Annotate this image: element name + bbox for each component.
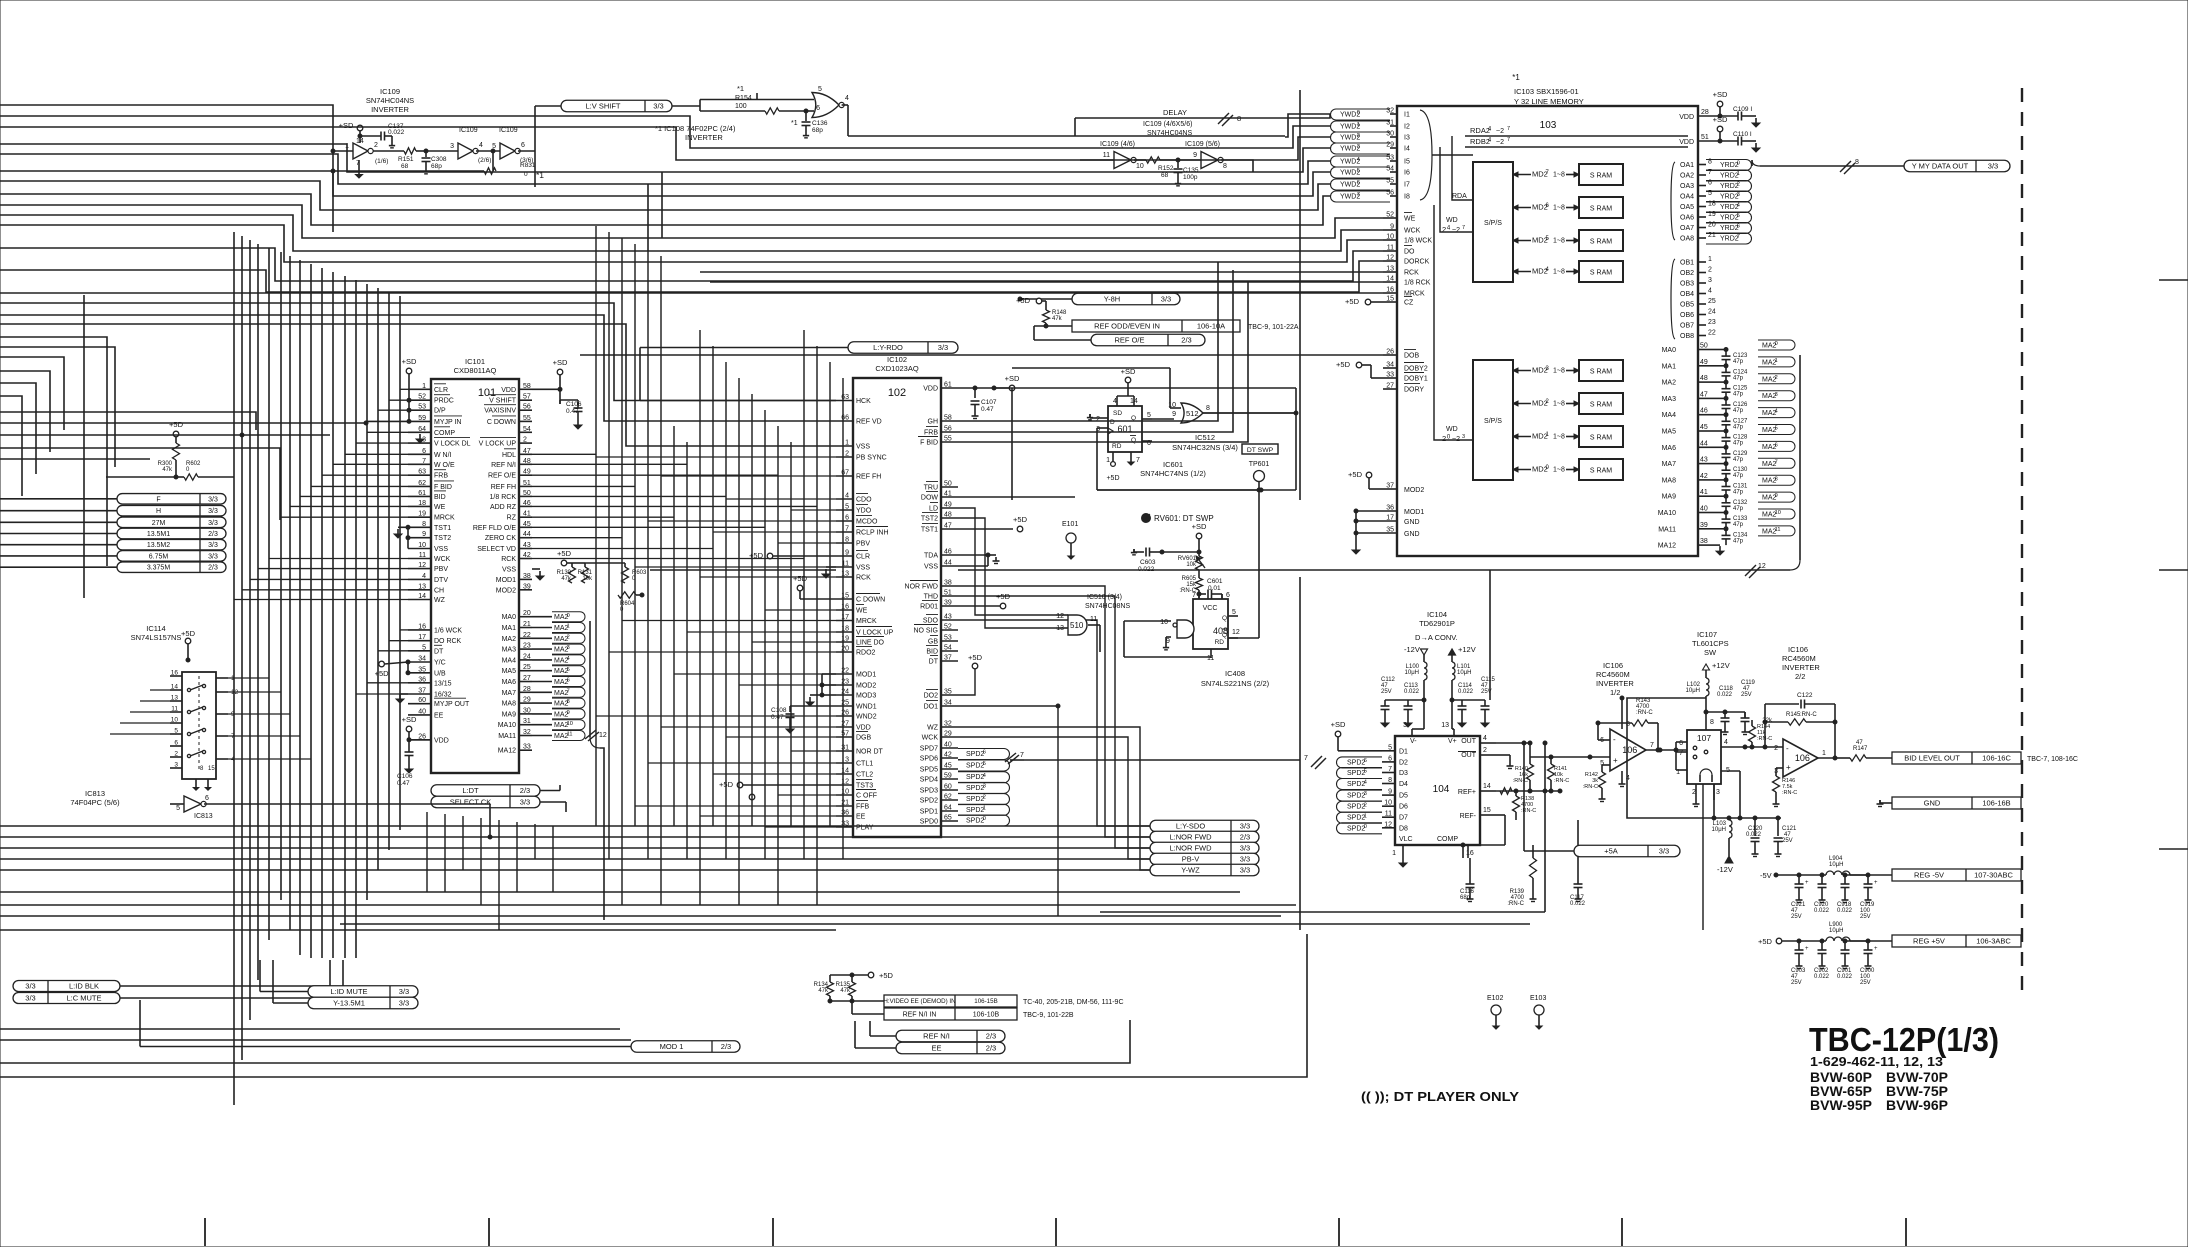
svg-text:I5: I5 (1404, 159, 1410, 166)
svg-text:IC101: IC101 (465, 357, 485, 366)
svg-text:F BID: F BID (920, 440, 938, 447)
flag L:V SHIFT 3/3 (561, 100, 672, 112)
svg-text:59: 59 (944, 773, 952, 780)
svg-text:VSS: VSS (434, 546, 448, 553)
svg-text:47p: 47p (1733, 538, 1744, 544)
svg-text:10: 10 (1160, 619, 1168, 626)
svg-text::RN-C: :RN-C (1507, 901, 1524, 907)
flag 6.75M 3/3 (117, 551, 226, 562)
svg-text:+SD: +SD (1713, 115, 1728, 124)
svg-text:IC104: IC104 (1427, 610, 1447, 619)
svg-text:10μH: 10μH (1829, 862, 1843, 868)
svg-text:0: 0 (1357, 110, 1360, 116)
svg-text:57: 57 (523, 394, 531, 401)
svg-text:3/3: 3/3 (1240, 822, 1250, 831)
svg-text:16: 16 (418, 623, 426, 630)
op-amp IC106 1/2 (1600, 696, 1654, 787)
svg-text:4: 4 (845, 95, 849, 102)
wire MOD 1 feed (140, 1000, 631, 1047)
svg-text:38: 38 (1700, 538, 1708, 545)
label WD bus lower (1442, 426, 1465, 443)
svg-text:47p: 47p (1733, 359, 1744, 365)
svg-text:PB SYNC: PB SYNC (856, 455, 887, 462)
svg-text:SPD2: SPD2 (920, 798, 938, 805)
svg-text:S RAM: S RAM (1590, 402, 1612, 409)
wire IC102 WZ line (958, 727, 1150, 870)
svg-text:22: 22 (523, 632, 531, 639)
svg-text:37: 37 (944, 655, 952, 662)
svg-text:54: 54 (523, 426, 531, 433)
svg-text:D/P: D/P (434, 408, 446, 415)
svg-text:IC601: IC601 (1163, 460, 1183, 469)
svg-text:7: 7 (1192, 592, 1196, 599)
svg-text:D4: D4 (1399, 781, 1408, 788)
svg-text:103: 103 (1540, 120, 1557, 131)
svg-text:MCDO: MCDO (856, 519, 878, 526)
svg-text:+5D: +5D (1336, 360, 1351, 369)
svg-text:12: 12 (418, 562, 426, 569)
svg-text:0.022: 0.022 (1404, 689, 1420, 695)
svg-text:V LOCK UP: V LOCK UP (479, 441, 517, 448)
svg-text:1~8: 1~8 (1553, 238, 1565, 245)
svg-text:10: 10 (418, 542, 426, 549)
svg-text:DORY: DORY (1404, 387, 1424, 394)
svg-text:3/3: 3/3 (1240, 855, 1250, 864)
label IC813 74F04PC (70, 789, 120, 807)
svg-text:10: 10 (1384, 800, 1392, 807)
wire into flag 13.5M1 (0, 533, 117, 535)
resistor R130 47k (557, 563, 576, 583)
svg-text:WND2: WND2 (856, 714, 877, 721)
ground IC101 pin 37 (396, 694, 408, 703)
svg-text:9: 9 (1390, 224, 1394, 231)
svg-text:+5D: +5D (1106, 475, 1119, 482)
svg-text:V-: V- (1410, 738, 1417, 745)
svg-text:+5D: +5D (1013, 515, 1028, 524)
wire left entry y448 (0, 448, 280, 520)
svg-text:0.022: 0.022 (1717, 692, 1733, 698)
power +SD IC102 pin15 (793, 574, 836, 599)
svg-text:15: 15 (1386, 296, 1394, 303)
svg-text:Y-8H: Y-8H (1104, 295, 1120, 304)
op IC103 MOD2 pin (1348, 470, 1424, 494)
svg-text:43: 43 (1700, 457, 1708, 464)
svg-text:GB: GB (928, 639, 938, 646)
svg-text:20: 20 (523, 610, 531, 617)
svg-text:47k: 47k (818, 988, 829, 994)
svg-text:ADD RZ: ADD RZ (490, 504, 517, 511)
title TBC-12P(1/3) (1809, 1021, 1999, 1058)
svg-text:5: 5 (845, 504, 849, 511)
svg-text:OB6: OB6 (1680, 312, 1694, 319)
inductor L103 body (1712, 816, 1733, 874)
svg-text:(2/6): (2/6) (478, 157, 491, 164)
svg-text:24: 24 (1708, 309, 1716, 316)
flag REF N/I IN 106-10B (884, 1008, 1074, 1020)
svg-text:SPD4: SPD4 (920, 777, 938, 784)
svg-text:53: 53 (944, 635, 952, 642)
svg-text:MOD2: MOD2 (496, 587, 516, 594)
svg-text:EE: EE (856, 814, 866, 821)
svg-text:62: 62 (418, 480, 426, 487)
power +SD R300 (169, 420, 184, 443)
svg-text:44: 44 (944, 560, 952, 567)
svg-text:+SD: +SD (1331, 720, 1346, 729)
svg-text:THD: THD (924, 594, 938, 601)
svg-text:Y-13.5M1: Y-13.5M1 (333, 999, 365, 1008)
svg-text:VDD: VDD (434, 737, 449, 744)
svg-text:3/3: 3/3 (653, 102, 663, 111)
svg-text:14: 14 (171, 684, 179, 691)
svg-text:D7: D7 (1399, 815, 1408, 822)
svg-text:11: 11 (419, 552, 426, 559)
wire IC102 FRB riser (958, 270, 1233, 432)
svg-text:2/3: 2/3 (986, 1044, 996, 1053)
svg-text:OB1: OB1 (1680, 260, 1694, 267)
svg-text:62: 62 (944, 794, 952, 801)
wire into flag H (0, 510, 117, 512)
op IC408 pins (1192, 592, 1240, 662)
flag Y-8H 3/3 (1072, 293, 1180, 305)
svg-text:REF FH: REF FH (491, 484, 516, 491)
svg-text:OA7: OA7 (1680, 225, 1694, 232)
svg-text:47k: 47k (840, 988, 851, 994)
wire feeds into IC101 (234, 389, 408, 694)
svg-text:50: 50 (523, 490, 531, 497)
svg-text:56: 56 (944, 426, 952, 433)
op IC103 MA pins (1658, 343, 1712, 550)
flag L:Y-SDO 3/3 (1150, 820, 1259, 832)
svg-text:3/3: 3/3 (1240, 866, 1250, 875)
svg-text:1: 1 (1775, 358, 1778, 364)
flag Y MY DATA OUT 3/3 (1904, 160, 2010, 172)
power +SD R148 (1016, 296, 1042, 305)
svg-text:MA2: MA2 (502, 636, 517, 643)
svg-text:INVERTER: INVERTER (371, 105, 409, 114)
svg-text:MOD 1: MOD 1 (660, 1042, 684, 1051)
svg-text:7: 7 (1304, 755, 1308, 762)
label IC512 SN74HC32NS (1172, 433, 1238, 452)
svg-text:+: + (1805, 880, 1809, 886)
svg-text:CDO: CDO (856, 497, 872, 504)
svg-text:37: 37 (418, 688, 426, 695)
svg-text:6: 6 (1226, 592, 1230, 599)
svg-text:GND: GND (1404, 519, 1420, 526)
svg-text:5: 5 (983, 761, 986, 767)
svg-text:D1: D1 (1399, 748, 1408, 755)
svg-text:30: 30 (1386, 131, 1394, 138)
svg-text:MA8: MA8 (502, 701, 517, 708)
svg-text:IC107: IC107 (1697, 630, 1717, 639)
wire left entry y371 (0, 371, 50, 452)
flag 27M 3/3 (117, 517, 226, 528)
svg-text:40: 40 (1700, 506, 1708, 513)
svg-text:VDD: VDD (923, 386, 938, 393)
wire left entry y412 (0, 412, 256, 430)
svg-text:10μH: 10μH (1712, 827, 1726, 833)
wire IC102 RD01 +5D (958, 592, 1011, 609)
svg-text:+5D: +5D (169, 420, 184, 429)
svg-text:9: 9 (1172, 411, 1176, 418)
svg-text:7: 7 (1388, 766, 1392, 773)
svg-text:REF VD: REF VD (856, 419, 882, 426)
svg-text:3/3: 3/3 (208, 520, 218, 527)
svg-text:IC106: IC106 (1788, 645, 1808, 654)
svg-text:IC114: IC114 (146, 624, 165, 633)
svg-text:0.022: 0.022 (1837, 974, 1853, 980)
svg-text:C136: C136 (812, 120, 828, 127)
svg-text:MOD2: MOD2 (856, 683, 876, 690)
svg-text:IC109 (5/6): IC109 (5/6) (1185, 141, 1220, 148)
svg-text:53: 53 (418, 404, 426, 411)
svg-text:61: 61 (418, 490, 426, 497)
svg-text:MA6: MA6 (502, 679, 517, 686)
svg-text:3: 3 (1775, 392, 1778, 398)
ground IC101 pin3 COMP (416, 434, 424, 443)
svg-text:3: 3 (983, 783, 986, 789)
svg-text:2: 2 (983, 795, 986, 801)
svg-text:(1/6): (1/6) (375, 158, 388, 165)
op IC102 right pins (905, 382, 958, 826)
svg-text:51: 51 (944, 590, 952, 597)
wire SELECT CK stub (540, 802, 566, 812)
wire IC114 right feeds (228, 678, 311, 759)
svg-text:SPD3: SPD3 (920, 788, 938, 795)
wire REF- net (1461, 815, 1505, 858)
svg-text:WCK: WCK (434, 556, 451, 563)
svg-text:16: 16 (171, 670, 179, 677)
svg-text:MA5: MA5 (1662, 429, 1677, 436)
svg-text:I4: I4 (1404, 146, 1410, 153)
svg-text:TST1: TST1 (434, 525, 451, 532)
bus SPD2 into IC104 (1304, 755, 1382, 834)
svg-text:TRU: TRU (924, 485, 938, 492)
svg-text:I1: I1 (1404, 112, 1410, 119)
svg-text:8: 8 (1710, 719, 1714, 726)
svg-text:-12V: -12V (1717, 865, 1733, 874)
svg-text:47p: 47p (1733, 506, 1744, 512)
svg-text:1~8: 1~8 (1553, 269, 1565, 276)
svg-text:48: 48 (523, 458, 531, 465)
svg-text:12: 12 (1056, 613, 1064, 620)
svg-text:S RAM: S RAM (1590, 239, 1612, 246)
label IC109 4/6X5/6 (1143, 121, 1192, 137)
svg-text:3/3: 3/3 (1161, 295, 1171, 304)
svg-text:4: 4 (1483, 735, 1487, 742)
op IC114 box (182, 672, 216, 779)
wire REG +5V rail (1758, 937, 1892, 946)
op IC104 TD62901P box (1395, 610, 1480, 845)
inverter IC109 3/6 (476, 127, 535, 164)
svg-text:21: 21 (523, 621, 531, 628)
svg-text:8: 8 (1388, 777, 1392, 784)
capacitor C120 0.022 (1746, 816, 1763, 857)
svg-text:1: 1 (1737, 171, 1740, 177)
svg-text:OB7: OB7 (1680, 323, 1694, 330)
svg-text:7: 7 (1020, 752, 1024, 759)
svg-text:+5D: +5D (996, 592, 1011, 601)
wire L:V SHIFT line (535, 100, 765, 188)
svg-text:5: 5 (1357, 168, 1360, 174)
svg-text:SPD2: SPD2 (1347, 770, 1365, 777)
op IC103 VDD pins (1679, 109, 1720, 146)
resistor R144 11k (1744, 712, 1746, 718)
op IC102 CXD1023AQ box (853, 355, 941, 837)
svg-text:25V: 25V (1381, 689, 1392, 695)
wire DT enclosure left (1012, 368, 1170, 500)
svg-text:10μH: 10μH (1457, 670, 1471, 676)
svg-text:BVW-95P: BVW-95P (1810, 1097, 1872, 1113)
svg-text:+5D: +5D (1758, 937, 1773, 946)
terminal E101 (1062, 521, 1078, 559)
svg-text:+SD: +SD (553, 358, 568, 367)
op IC103 SBX1596-01 box (1397, 73, 1698, 556)
svg-text:27: 27 (523, 675, 531, 682)
wire RDA bus internal (1452, 136, 1473, 200)
svg-text:34: 34 (418, 656, 426, 663)
svg-text:L:ID BLK: L:ID BLK (69, 982, 99, 991)
svg-text:3: 3 (174, 762, 178, 769)
svg-text:C107: C107 (981, 399, 997, 406)
svg-text:L:ID MUTE: L:ID MUTE (330, 987, 367, 996)
capacitors C921 C920 C918 C919 (1791, 875, 1878, 920)
svg-text:C308: C308 (431, 156, 447, 163)
svg-text:SPD1: SPD1 (920, 809, 938, 816)
flag 3.375M 2/3 (117, 562, 226, 573)
svg-text:YDO: YDO (856, 508, 872, 515)
svg-text:RD01: RD01 (920, 604, 938, 611)
svg-text:MA8: MA8 (1662, 477, 1677, 484)
svg-text:0.01: 0.01 (1208, 585, 1221, 592)
power +SD at IC101 top-right (553, 358, 568, 391)
wire IC102 F BID riser (958, 281, 1248, 442)
svg-text:+5D: +5D (793, 574, 808, 583)
op IC103 DOB pins (1336, 349, 1428, 394)
label TBC-9 101-22A (1248, 324, 1299, 331)
svg-text:3/3: 3/3 (399, 987, 409, 996)
label TBC-7 108-16C (2027, 756, 2078, 763)
svg-text::RN-C: :RN-C (1513, 778, 1528, 784)
svg-text:38: 38 (944, 580, 952, 587)
power +SD above R130 (557, 549, 572, 566)
wire IC107 pin5 net (1721, 771, 1742, 820)
capacitor C119 47 25V (1725, 680, 1756, 735)
svg-text:MA1: MA1 (502, 625, 517, 632)
capacitor C116 68p (1460, 858, 1475, 902)
resistor R152 68 (1146, 157, 1178, 179)
wire top-left bus staircase (0, 116, 1285, 293)
flag +5A 3/3 (1574, 845, 1680, 857)
svg-text:0.022: 0.022 (1458, 689, 1474, 695)
svg-text:7: 7 (1679, 750, 1683, 757)
svg-text:+: + (1786, 763, 1791, 772)
svg-text:MA10: MA10 (498, 722, 516, 729)
svg-text:C106: C106 (566, 401, 582, 408)
wire left entry y435 (0, 433, 330, 437)
label IC408 SN74LS221NS (1201, 669, 1270, 688)
label RV601 DT SWP (1142, 514, 1214, 524)
svg-text:6: 6 (521, 142, 525, 149)
svg-text:11: 11 (1387, 245, 1394, 252)
svg-text:SPD2: SPD2 (1347, 804, 1365, 811)
svg-text:9: 9 (567, 710, 570, 716)
svg-text:7: 7 (845, 526, 849, 533)
svg-text:1: 1 (422, 383, 426, 390)
svg-text:FRB: FRB (924, 430, 938, 437)
svg-text:L:NOR FWD: L:NOR FWD (1169, 844, 1212, 853)
svg-text:IC109: IC109 (499, 127, 518, 134)
svg-text:35: 35 (418, 666, 426, 673)
wire NOR in top (0, 0, 1, 1)
svg-text:1/8 WCK: 1/8 WCK (1404, 238, 1432, 245)
svg-text:28: 28 (523, 686, 531, 693)
op IC601 pins (1096, 398, 1152, 466)
svg-text:SPD2: SPD2 (966, 818, 984, 825)
svg-text:7: 7 (1507, 137, 1510, 143)
svg-text:2: 2 (1708, 267, 1712, 274)
svg-text:MOD2: MOD2 (1404, 487, 1424, 494)
svg-text:PB-V: PB-V (1182, 855, 1200, 864)
svg-text:6: 6 (205, 795, 209, 802)
svg-text:+SD: +SD (1005, 374, 1020, 383)
flag L:NOR FWD 2/3 (1150, 831, 1259, 843)
svg-text:4: 4 (845, 493, 849, 500)
svg-text:8: 8 (1775, 476, 1778, 482)
svg-text:51: 51 (1701, 134, 1709, 141)
wire 512 out vertical (992, 386, 1298, 492)
svg-text:2: 2 (174, 751, 178, 758)
right edge join mark 1 (2159, 279, 2188, 281)
svg-text:DOBY1: DOBY1 (1404, 376, 1428, 383)
svg-text:106-15B: 106-15B (974, 998, 997, 1005)
svg-text:+: + (1613, 756, 1618, 765)
svg-text:SPD2: SPD2 (966, 774, 984, 781)
svg-text:11: 11 (567, 732, 573, 738)
flag 13.5M2 3/3 (117, 539, 226, 550)
capacitor C117 0.022 (1570, 820, 1586, 907)
svg-text:47k: 47k (561, 576, 572, 582)
svg-text:VCC: VCC (1203, 605, 1218, 612)
svg-text::RN-C: :RN-C (1583, 784, 1598, 790)
wire IC102 TST2 riser (958, 518, 1056, 628)
svg-text:2: 2 (845, 451, 849, 458)
svg-text:2/3: 2/3 (520, 786, 530, 795)
flag BID LEVEL OUT 106-16C (1892, 752, 2021, 764)
wire IC114 left feeds (110, 690, 170, 734)
svg-text:3/3: 3/3 (520, 798, 530, 807)
svg-text:4: 4 (422, 573, 426, 580)
flag L:Y-RDO 3/3 (848, 342, 958, 354)
svg-text:11: 11 (1090, 616, 1097, 623)
svg-text:7: 7 (1737, 234, 1740, 240)
svg-text:47: 47 (944, 523, 952, 530)
svg-text:10: 10 (567, 721, 573, 727)
svg-text:47k: 47k (162, 467, 173, 473)
svg-text:R831: R831 (520, 162, 536, 169)
inverter IC109 2/6 (426, 127, 491, 164)
svg-text:6: 6 (1775, 442, 1778, 448)
wire L:DT flag stub (540, 785, 560, 791)
svg-text:6: 6 (422, 448, 426, 455)
svg-text:1~8: 1~8 (1553, 368, 1565, 375)
svg-text:+5D: +5D (1016, 296, 1031, 305)
wire bottom-left bus (0, 826, 1296, 930)
svg-text:8: 8 (1223, 163, 1227, 170)
label IC109 (5/6) (1185, 141, 1220, 148)
svg-text:*1: *1 (737, 84, 744, 93)
svg-text:10k: 10k (582, 576, 593, 582)
svg-text:R147: R147 (1853, 746, 1868, 752)
